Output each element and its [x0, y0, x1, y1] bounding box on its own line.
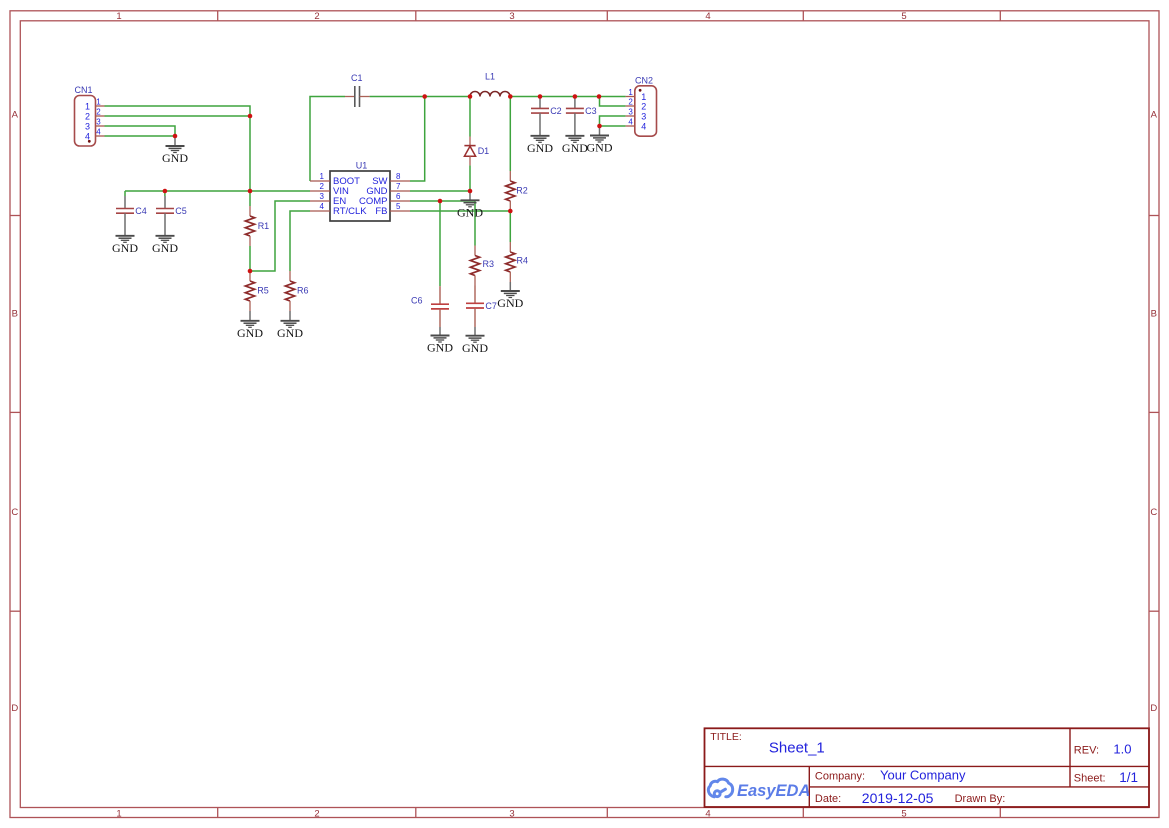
wire BOOT riser	[310, 97, 345, 182]
svg-text:4: 4	[628, 118, 633, 127]
svg-text:1: 1	[320, 172, 325, 181]
svg-text:REV:: REV:	[1074, 744, 1099, 756]
title block	[705, 728, 1150, 807]
wire C1 right to SW node	[370, 96, 470, 98]
svg-text:3: 3	[509, 11, 514, 22]
svg-text:3: 3	[628, 108, 633, 117]
wire C6 drop	[439, 201, 441, 286]
wire SW riser	[410, 97, 425, 182]
svg-text:2: 2	[314, 11, 319, 22]
connector CN1	[75, 85, 105, 146]
wire VIN bus	[125, 190, 310, 192]
ground C4	[112, 213, 138, 255]
junction C3 node	[573, 94, 578, 99]
svg-text:R1: R1	[258, 221, 270, 231]
svg-text:C7: C7	[485, 301, 497, 311]
junction COMP C6 node	[438, 199, 443, 204]
wire CN2 pin4	[600, 125, 626, 127]
svg-text:D: D	[1150, 703, 1157, 714]
svg-text:R2: R2	[516, 186, 528, 196]
resistor R6	[285, 271, 308, 311]
junction D1 GND node	[468, 189, 473, 194]
wire COMP	[410, 201, 475, 246]
svg-text:2: 2	[641, 102, 646, 112]
ground C3	[562, 113, 588, 155]
diode D1	[464, 137, 489, 166]
capacitor C6	[411, 286, 449, 327]
junction SW node	[422, 94, 427, 99]
capacitor C7	[466, 286, 497, 328]
svg-text:1: 1	[641, 92, 646, 102]
svg-text:2: 2	[85, 112, 90, 122]
junction C2 node	[538, 94, 543, 99]
svg-text:1: 1	[116, 809, 121, 820]
resistor R1	[245, 206, 269, 246]
svg-text:1: 1	[628, 88, 633, 97]
svg-text:R6: R6	[297, 285, 309, 295]
svg-text:R3: R3	[483, 259, 495, 269]
junction D1 L1 node	[468, 94, 473, 99]
svg-text:2: 2	[96, 108, 101, 117]
svg-text:2: 2	[314, 809, 319, 820]
ground C2	[527, 113, 553, 155]
IC U1	[310, 161, 410, 222]
resistor R4	[506, 242, 528, 282]
svg-text:3: 3	[320, 192, 325, 201]
wire CN1 pin2	[105, 115, 251, 117]
wire CN1 pin1 to VIN riser	[105, 106, 251, 206]
svg-text:Drawn By:: Drawn By:	[955, 793, 1006, 805]
resistor R3	[470, 246, 494, 286]
svg-text:A: A	[1151, 110, 1158, 121]
resistor R5	[245, 271, 268, 311]
svg-text:D1: D1	[478, 146, 490, 156]
junction CN2 pin2 node	[597, 94, 602, 99]
svg-text:R5: R5	[257, 285, 269, 295]
svg-text:C1: C1	[351, 73, 363, 83]
ground U1 pin7	[457, 191, 483, 220]
svg-text:R4: R4	[517, 256, 529, 266]
svg-text:1: 1	[96, 98, 101, 107]
svg-text:C6: C6	[411, 296, 423, 306]
EasyEDA logo	[708, 779, 732, 797]
resistor R2	[506, 171, 528, 211]
ground CN1	[162, 136, 188, 165]
svg-text:CN1: CN1	[75, 85, 93, 95]
svg-text:A: A	[12, 110, 19, 121]
svg-text:2019-12-05: 2019-12-05	[862, 790, 934, 806]
svg-text:5: 5	[396, 202, 401, 211]
capacitor C2	[531, 97, 562, 116]
svg-text:Company:: Company:	[815, 770, 865, 782]
wire top bus right	[510, 96, 625, 98]
junction CN2 ground node	[597, 124, 602, 129]
svg-text:7: 7	[396, 182, 401, 191]
svg-text:2: 2	[628, 98, 633, 107]
wire FB	[410, 210, 510, 212]
svg-text:Sheet_1: Sheet_1	[769, 740, 825, 757]
capacitor C3	[566, 97, 597, 116]
svg-text:4: 4	[96, 128, 101, 137]
svg-text:3: 3	[641, 112, 646, 122]
wire U1 GND pin	[410, 190, 470, 192]
svg-text:3: 3	[85, 122, 90, 132]
wire CN1 pin4	[105, 135, 176, 137]
wire R2 top	[509, 97, 511, 172]
svg-text:U1: U1	[356, 161, 368, 171]
svg-text:TITLE:: TITLE:	[710, 731, 742, 743]
svg-text:C5: C5	[175, 206, 187, 216]
svg-text:3: 3	[96, 118, 101, 127]
svg-text:B: B	[1151, 308, 1157, 319]
wire C5 drop	[164, 191, 166, 196]
svg-text:1: 1	[116, 11, 121, 22]
svg-text:Your Company: Your Company	[880, 768, 966, 783]
svg-text:C3: C3	[585, 106, 597, 116]
svg-text:FB: FB	[375, 206, 387, 217]
svg-text:5: 5	[901, 809, 906, 820]
svg-text:8: 8	[396, 172, 401, 181]
capacitor C4	[116, 196, 147, 216]
svg-text:5: 5	[901, 11, 906, 22]
ground C7	[462, 327, 488, 355]
svg-text:C2: C2	[550, 106, 562, 116]
wire RT/CLK	[290, 211, 310, 271]
svg-text:1/1: 1/1	[1119, 770, 1138, 785]
wire C4 drop	[124, 191, 126, 196]
junction CN1 ground node	[173, 134, 178, 139]
svg-text:3: 3	[509, 809, 514, 820]
junction FB R2 R4 node	[508, 209, 513, 214]
svg-text:4: 4	[705, 11, 710, 22]
ground C5	[152, 213, 178, 255]
ground CN2	[587, 126, 613, 155]
wire EN	[250, 201, 310, 271]
svg-text:4: 4	[320, 202, 325, 211]
svg-text:4: 4	[85, 132, 90, 142]
svg-text:C4: C4	[135, 206, 147, 216]
svg-text:C: C	[11, 507, 18, 518]
junction L1 R2 node	[508, 94, 513, 99]
wire CN2 pin2 riser	[600, 97, 626, 107]
junction VIN riser node	[248, 189, 253, 194]
svg-text:B: B	[12, 308, 18, 319]
ground C6	[427, 327, 453, 355]
ground R6	[277, 311, 303, 340]
junction C5 VIN node	[163, 189, 168, 194]
svg-text:Date:: Date:	[815, 793, 841, 805]
svg-text:D: D	[11, 703, 18, 714]
ground R5	[237, 311, 263, 340]
svg-text:1.0: 1.0	[1113, 741, 1131, 756]
junction CN1 pin2 node	[248, 114, 253, 119]
svg-text:RT/CLK: RT/CLK	[333, 206, 367, 217]
capacitor C5	[156, 196, 187, 216]
svg-text:1: 1	[85, 102, 90, 112]
wire CN1 pin3	[105, 126, 176, 136]
wire CN2 pin3	[600, 116, 626, 126]
svg-text:CN2: CN2	[635, 76, 653, 86]
wire D1 bottom	[469, 165, 471, 191]
svg-text:4: 4	[705, 809, 710, 820]
wire D1 top	[469, 97, 471, 137]
wire R4 top	[509, 211, 511, 242]
inductor L1	[470, 72, 510, 97]
svg-text:4: 4	[641, 122, 646, 132]
svg-text:L1: L1	[485, 72, 495, 82]
svg-text:C: C	[1150, 507, 1157, 518]
svg-text:2: 2	[320, 182, 325, 191]
wire R1 bottom	[249, 246, 251, 271]
svg-text:6: 6	[396, 192, 401, 201]
ground R4	[497, 282, 523, 310]
connector CN2	[626, 76, 657, 137]
svg-text:EasyEDA: EasyEDA	[737, 782, 810, 800]
svg-text:Sheet:: Sheet:	[1074, 772, 1106, 784]
junction R1 R5 EN node	[248, 269, 253, 274]
capacitor C1	[345, 73, 370, 107]
